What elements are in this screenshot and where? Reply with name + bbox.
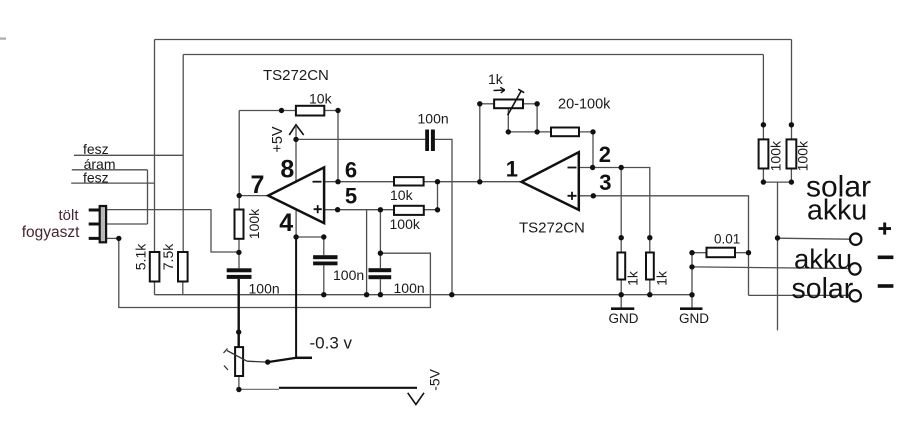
svg-text:1: 1	[506, 157, 518, 182]
wire outer right vertical to 100k	[791, 40, 793, 140]
svg-text:fesz: fesz	[83, 169, 109, 185]
svg-text:tölt: tölt	[59, 207, 80, 224]
svg-text:TS272CN: TS272CN	[263, 67, 329, 84]
wire pin4 vertical	[295, 209, 297, 237]
svg-text:100k: 100k	[390, 216, 421, 232]
svg-text:akku: akku	[807, 195, 867, 227]
terminal akku minus	[849, 263, 860, 274]
svg-text:4: 4	[279, 209, 293, 237]
wire 20-100k right	[579, 132, 593, 168]
wire fesz lower line	[71, 182, 154, 184]
wire akku plus line	[778, 238, 850, 239]
wire connector pin1 to node	[106, 210, 239, 252]
+5V supply arrow	[289, 125, 304, 135]
wire akku minus line	[692, 267, 848, 269]
wire ground bus	[155, 294, 692, 296]
resistor 1k a	[617, 253, 625, 280]
1k adjust arrow	[494, 87, 505, 93]
wire 100n cap right down to bus	[435, 139, 452, 294]
capacitor C2 100n plates	[227, 268, 252, 272]
capacitor C1 100n plates	[425, 130, 429, 152]
svg-text:100k: 100k	[795, 140, 811, 171]
svg-text:+5V: +5V	[270, 126, 286, 153]
ground symbol GND1	[611, 307, 634, 310]
wire cap C3 bottom stub	[323, 265, 325, 294]
svg-text:fogyaszt: fogyaszt	[22, 224, 80, 241]
wire pot left vertical	[479, 104, 481, 182]
svg-text:fesz: fesz	[83, 141, 109, 157]
wire opamp2 pin3 line	[579, 196, 749, 296]
wire cap C4 bottom stub	[379, 279, 381, 295]
resistor 7.5k	[178, 252, 188, 282]
svg-text:2: 2	[599, 142, 611, 167]
minus sign solar	[878, 284, 894, 288]
plus sign	[879, 223, 892, 235]
wire inner left vertical	[182, 55, 184, 253]
wire 100k vertical bottom stub	[238, 239, 240, 253]
wire outer top feedback line	[155, 39, 792, 41]
wire 777 vertical	[777, 182, 779, 330]
wire inner right vertical to 100k	[762, 55, 764, 140]
wire opamp1 noninverting input line	[324, 209, 437, 211]
wire pot left stub	[480, 103, 494, 105]
wire 1k-b bottom stub	[649, 280, 651, 295]
resistor 1k b	[646, 253, 654, 280]
resistor 100k middle	[394, 206, 424, 215]
op-amp U1B minus mark	[568, 167, 577, 169]
wire feedback top to 10k	[239, 110, 296, 112]
svg-text:100k: 100k	[246, 208, 262, 239]
resistor 100k right a	[759, 139, 769, 168]
wire opamp1 inverting input line	[324, 181, 521, 183]
wire feedback left vertical	[238, 111, 240, 210]
svg-text:7.5k: 7.5k	[160, 243, 176, 270]
wire outer left vertical	[154, 40, 156, 253]
wire -5V thin	[239, 388, 279, 390]
wire 100k-a bottom stub	[762, 169, 764, 183]
wire +5V stem to pin 8	[295, 127, 297, 182]
junction dots	[116, 236, 121, 241]
trimmer diagonal arrow	[227, 351, 247, 362]
-5V arrow	[408, 393, 424, 405]
svg-text:100k: 100k	[768, 140, 784, 171]
op-amp U1B plus mark	[568, 192, 577, 200]
op-amp U1B TS272CN	[522, 152, 579, 210]
svg-text:-5V: -5V	[426, 368, 442, 390]
edge artifact	[0, 38, 6, 40]
svg-text:1k: 1k	[488, 71, 504, 87]
resistor 10k middle	[394, 177, 424, 185]
wire cap C2 top stub	[238, 252, 240, 268]
svg-text:1k: 1k	[653, 270, 669, 286]
svg-text:-0.3 v: -0.3 v	[310, 333, 353, 352]
wire connector pin3 down and right	[119, 238, 431, 307]
potentiometer 1k	[494, 100, 523, 109]
svg-text:akku: akku	[794, 244, 852, 275]
wire fesz upper line	[74, 154, 183, 156]
svg-text:100n: 100n	[418, 111, 449, 127]
resistor 100k right b	[787, 139, 797, 168]
svg-text:10k: 10k	[309, 90, 333, 106]
wire pin4 down heavy	[295, 237, 297, 358]
wire inner top feedback line	[183, 54, 763, 56]
terminal solar minus	[850, 290, 861, 301]
resistor 5.1k	[150, 252, 160, 282]
svg-text:TS272CN: TS272CN	[519, 220, 585, 237]
wire 10k right to inverting input	[324, 111, 338, 182]
wire pot right stub	[523, 103, 537, 105]
wire cap C2 to trimmer heavy	[237, 279, 239, 347]
wire +5V to 100n cap	[296, 138, 425, 140]
wire 100k pair join	[763, 181, 791, 183]
trimmer resistor	[235, 347, 243, 376]
wire -5V heavy	[279, 387, 417, 389]
svg-text:GND: GND	[679, 311, 709, 326]
wire 100k-b bottom stub	[790, 169, 792, 183]
wire GND1 stub	[620, 295, 622, 309]
svg-text:100n: 100n	[394, 280, 425, 296]
wire GND2 stub	[691, 295, 693, 309]
svg-text:6: 6	[345, 157, 357, 182]
ground symbol GND2	[680, 307, 703, 310]
capacitor C4 100n plates	[369, 268, 392, 272]
svg-text:20-100k: 20-100k	[558, 97, 611, 113]
svg-text:7: 7	[251, 171, 265, 199]
wire opamp2 pin2 line	[579, 168, 650, 253]
terminal akku plus	[850, 234, 861, 245]
capacitor C3 100n plates	[313, 255, 337, 259]
op-amp U1A TS272CN	[268, 167, 324, 223]
wire 100k-left down to cap C4	[379, 210, 381, 268]
svg-text:1k: 1k	[625, 270, 641, 286]
trimmer wiper thin	[247, 360, 268, 363]
op-amp U1A minus mark	[313, 181, 322, 183]
connector J1 pins	[89, 210, 99, 238]
wire 0.01 right stub	[735, 252, 749, 254]
wire 1k-a bottom stub	[620, 280, 622, 295]
svg-text:3: 3	[599, 170, 611, 195]
wire 692 vertical to bus	[691, 253, 693, 295]
wire pot right vertical	[536, 104, 538, 132]
wire aram line	[72, 169, 148, 171]
wire aram vertical to connector	[147, 170, 149, 224]
wire pot wiper vertical	[507, 108, 509, 132]
op-amp U1A plus mark	[314, 205, 322, 213]
connector J1 body	[100, 206, 106, 242]
resistor 10k feedback	[296, 106, 324, 116]
resistor 20-100k	[551, 128, 579, 137]
svg-text:GND: GND	[609, 311, 639, 326]
wire 0.01 left stub	[692, 252, 707, 254]
wire solar minus line	[749, 294, 849, 296]
svg-text:0.01: 0.01	[714, 232, 740, 247]
wire 7.5k bottom stub	[182, 282, 184, 295]
svg-text:8: 8	[280, 155, 294, 183]
resistor 100k vertical	[235, 210, 244, 239]
wire connector pin2	[106, 223, 148, 225]
svg-text:solar: solar	[792, 273, 854, 305]
wire connector pin3	[106, 237, 119, 239]
wire pin4 stub	[296, 236, 324, 238]
svg-text:10k: 10k	[390, 187, 414, 203]
wire 1k-a vertical	[620, 168, 622, 253]
resistor 0.01	[707, 248, 736, 258]
wire pin5 branch to bus	[366, 210, 368, 295]
svg-text:5: 5	[345, 184, 357, 209]
minus sign akku	[878, 256, 894, 260]
svg-text:100n: 100n	[249, 281, 280, 297]
wire cap C3 top stub	[323, 237, 325, 255]
trimmer wiper heavy	[268, 358, 297, 362]
wire trimmer bottom stub	[238, 376, 240, 390]
wire 5.1k bottom stub	[154, 282, 156, 295]
wire opamp1 output	[239, 195, 268, 197]
potentiometer diagonal	[508, 89, 525, 115]
trimmer arc marks	[224, 349, 229, 371]
svg-text:5.1k: 5.1k	[133, 243, 149, 270]
svg-text:100n: 100n	[333, 267, 364, 283]
wire wiper row to 20-100k	[508, 131, 551, 133]
wire node 437 vertical	[437, 182, 439, 210]
pin4 bottom bar	[296, 357, 312, 360]
